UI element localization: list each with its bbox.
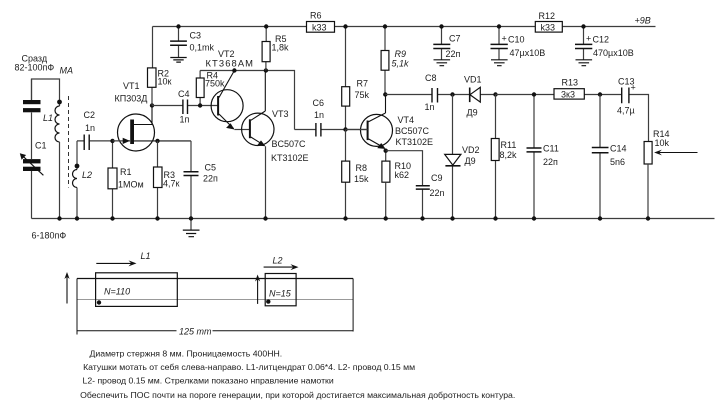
L1 winding arrow — [96, 262, 132, 264]
ferrite rod drawing — [64, 251, 353, 337]
svg-text:k33: k33 — [541, 22, 556, 32]
resistor R11 8,2k — [491, 95, 517, 219]
svg-text:1n: 1n — [85, 123, 95, 133]
resistor R9 5,1k — [381, 27, 409, 95]
svg-text:22п: 22п — [543, 157, 558, 167]
svg-text:C6: C6 — [313, 98, 325, 108]
svg-text:R1: R1 — [120, 167, 132, 177]
svg-text:L2: L2 — [82, 170, 92, 180]
svg-text:МА: МА — [60, 66, 74, 76]
junction VT4 collector node — [383, 92, 387, 96]
svg-text:Д9: Д9 — [465, 156, 476, 166]
svg-text:22п: 22п — [203, 174, 218, 184]
potentiometer R14 10k — [644, 129, 697, 219]
svg-text:C14: C14 — [610, 144, 627, 154]
svg-text:C8: C8 — [425, 73, 437, 83]
junction R5 top — [264, 24, 268, 28]
wire antenna top — [32, 79, 60, 106]
svg-text:+: + — [502, 34, 507, 44]
svg-text:VD2: VD2 — [462, 145, 480, 155]
svg-text:k33: k33 — [312, 22, 327, 32]
capacitor C9 22n — [386, 151, 445, 219]
wire C6 row to VT4 base — [346, 129, 368, 131]
svg-text:5n6: 5n6 — [610, 157, 625, 167]
ferrite core dashed line — [68, 96, 70, 188]
diode VD1 Д9 — [453, 75, 496, 118]
capacitor C6 1n — [295, 98, 368, 137]
svg-text:BC507C: BC507C — [395, 126, 430, 136]
svg-text:1п: 1п — [180, 115, 190, 125]
junction VD2 node — [450, 92, 454, 96]
svg-text:4,7к: 4,7к — [163, 179, 180, 189]
svg-text:10к: 10к — [158, 77, 172, 87]
capacitor C11 22п — [527, 95, 559, 219]
wire detector row — [496, 95, 649, 142]
svg-text:C7: C7 — [449, 34, 461, 44]
antenna capacitor Сразд 82-100пФ — [15, 54, 55, 160]
svg-text:10k: 10k — [655, 138, 670, 148]
junction R11 node — [493, 92, 497, 96]
capacitor C3 0,1mk with ground — [170, 27, 214, 63]
wire VT2 emitter to VT3 base — [234, 129, 250, 131]
junction C10 top — [497, 24, 501, 28]
transistor VT1 КП303Д — [113, 81, 192, 151]
svg-text:VD1: VD1 — [464, 75, 482, 85]
junction C12 top — [581, 24, 585, 28]
svg-text:C5: C5 — [205, 163, 217, 173]
resistor R1 1МОм — [108, 141, 144, 219]
capacitor C12 470µx10В electrolytic with ground — [575, 27, 634, 66]
junction VT2 collector node — [232, 68, 236, 72]
junction R5/VT3 collector node — [264, 68, 268, 72]
coil L2 winding N=15 — [265, 274, 296, 306]
capacitor C14 5n6 — [592, 95, 627, 219]
svg-text:+: + — [586, 34, 591, 44]
svg-text:6-180пФ: 6-180пФ — [32, 231, 67, 241]
svg-text:1n: 1n — [425, 102, 435, 112]
junction C11 top — [532, 92, 536, 96]
svg-text:КП303Д: КП303Д — [115, 94, 148, 104]
svg-text:C3: C3 — [190, 31, 202, 41]
svg-text:C4: C4 — [178, 89, 190, 99]
svg-text:C10: C10 — [508, 35, 525, 45]
variable capacitor C1 6-180пФ — [20, 141, 67, 241]
junction VT4 emitter node — [384, 149, 388, 153]
resistor R6 k33 — [307, 11, 335, 33]
svg-text:0,1mk: 0,1mk — [190, 43, 215, 53]
svg-text:N=15: N=15 — [269, 289, 292, 299]
junction C6/R7/R8 node — [343, 127, 347, 131]
transistor VT3 BC507C KT3102E — [242, 71, 309, 219]
svg-text:L1: L1 — [43, 113, 53, 123]
svg-text:L1: L1 — [141, 251, 151, 261]
svg-text:125 mm: 125 mm — [179, 327, 212, 337]
resistor R4 750k — [196, 71, 225, 106]
svg-text:L2- провод 0.15 мм. Стрелками: L2- провод 0.15 мм. Стрелками показано н… — [83, 376, 334, 386]
junction dots on bottom rail — [57, 216, 650, 220]
junction C7 top — [439, 24, 443, 28]
resistor R8 15k — [342, 130, 369, 219]
capacitor C10 47µx10В electrolytic with ground — [491, 27, 546, 66]
svg-text:750k: 750k — [205, 79, 225, 89]
dimension 125 mm — [78, 330, 354, 332]
node gate junction — [110, 139, 114, 143]
svg-text:C2: C2 — [84, 110, 96, 120]
svg-text:R11: R11 — [501, 140, 517, 150]
svg-text:+: + — [631, 83, 636, 93]
inductor L1 — [43, 100, 62, 219]
svg-text:1n: 1n — [314, 110, 324, 120]
capacitor C5 22п — [184, 141, 219, 219]
capacitor C2 — [77, 110, 113, 150]
resistor R10 k62 — [382, 161, 411, 219]
svg-text:R12: R12 — [539, 11, 556, 21]
svg-text:15k: 15k — [354, 174, 369, 184]
svg-text:C9: C9 — [431, 173, 443, 183]
winding direction arrow right — [257, 277, 259, 304]
winding direction arrow left — [66, 275, 68, 304]
svg-text:470µx10В: 470µx10В — [593, 48, 634, 58]
svg-text:47µx10В: 47µx10В — [510, 48, 546, 58]
transistor VT2 КТ368АМ — [206, 49, 255, 130]
diode VD2 Д9 — [445, 95, 480, 219]
svg-text:BC507C: BC507C — [272, 139, 307, 149]
svg-text:R7: R7 — [357, 79, 369, 89]
svg-text:3к3: 3к3 — [561, 89, 575, 99]
svg-text:N=110: N=110 — [104, 287, 130, 297]
resistor R7 75k — [342, 27, 370, 130]
svg-text:1,8k: 1,8k — [272, 43, 290, 53]
wire top supply rail — [153, 26, 656, 28]
svg-text:VT3: VT3 — [272, 109, 289, 119]
node VT1 drain junction — [150, 103, 154, 107]
resistor R12 k33 — [535, 11, 562, 32]
svg-text:KT3102E: KT3102E — [396, 137, 434, 147]
ground symbol on bottom rail — [183, 219, 200, 237]
svg-text:k62: k62 — [395, 170, 410, 180]
svg-text:Диаметр стержня 8 мм. Проницае: Диаметр стержня 8 мм. Проницаемость 400Н… — [90, 349, 283, 359]
svg-text:R9: R9 — [395, 49, 407, 59]
svg-text:8,2k: 8,2k — [500, 150, 518, 160]
junction C3 top — [176, 24, 180, 28]
svg-text:82-100пФ: 82-100пФ — [15, 63, 55, 73]
wire collector node row — [200, 71, 294, 130]
svg-text:Обеспечить ПОС почти на пороге: Обеспечить ПОС почти на пороге генерации… — [80, 390, 515, 400]
svg-text:4,7µ: 4,7µ — [617, 106, 635, 116]
resistor R13 3к3 — [554, 78, 584, 100]
capacitor C8 1n — [385, 73, 452, 112]
svg-text:Катушки мотать от себя слева-н: Катушки мотать от себя слева-направо. L1… — [83, 362, 415, 372]
svg-text:KT3102E: KT3102E — [271, 153, 309, 163]
wire bottom ground rail — [32, 218, 715, 220]
node VT1 source junction — [155, 139, 159, 143]
resistor R2 10к — [148, 27, 172, 106]
junction R13/C14 node — [598, 92, 602, 96]
junction R9 top — [383, 24, 387, 28]
coil L1 winding N=110 — [96, 273, 178, 307]
svg-text:1МОм: 1МОм — [118, 180, 144, 190]
svg-text:R13: R13 — [562, 78, 579, 88]
svg-text:22n: 22n — [430, 188, 445, 198]
svg-text:22п: 22п — [446, 49, 461, 59]
capacitor C7 22п with ground — [433, 27, 460, 66]
resistor R5 1,8k — [262, 27, 289, 71]
svg-text:Д9: Д9 — [467, 108, 478, 118]
rod outline — [77, 278, 353, 280]
transistor VT4 BC507C КТ3102Е — [361, 95, 434, 162]
capacitor C4 1п — [152, 89, 218, 125]
svg-text:L2: L2 — [273, 256, 283, 266]
svg-text:C11: C11 — [543, 144, 559, 154]
svg-text:VT4: VT4 — [398, 115, 415, 125]
capacitor C13 4,7µ electrolytic — [617, 77, 636, 116]
resistor R3 4,7к — [154, 141, 180, 219]
svg-text:C1: C1 — [35, 141, 47, 151]
svg-text:C12: C12 — [593, 35, 610, 45]
L2 winding arrow — [264, 266, 295, 268]
junction R4 bottom / VT2 base — [198, 103, 202, 107]
svg-text:VT1: VT1 — [123, 81, 140, 91]
inductor L2 — [73, 141, 93, 219]
junction R7 top — [343, 24, 347, 28]
svg-text:+9В: +9В — [635, 16, 651, 26]
svg-text:R6: R6 — [310, 11, 322, 21]
svg-text:КТ368АМ: КТ368АМ — [206, 58, 255, 69]
notes text — [80, 349, 515, 401]
svg-text:R8: R8 — [356, 163, 368, 173]
svg-text:5,1k: 5,1k — [392, 59, 410, 69]
svg-text:75k: 75k — [355, 90, 370, 100]
